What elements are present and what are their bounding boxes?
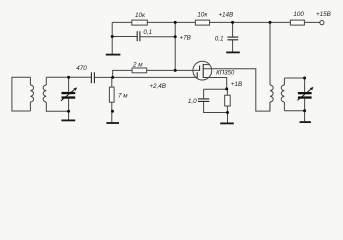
ground bar left tank: [61, 119, 75, 121]
svg-text:2 м: 2 м: [132, 61, 143, 68]
capacitor C3 470 plates: [91, 72, 94, 83]
wire right tank secondary bottom: [284, 110, 304, 112]
wire L4 top lead: [283, 78, 285, 85]
wire left rail drop: [111, 22, 113, 36]
ground bar C2: [226, 51, 240, 53]
wire L4 bottom lead: [283, 102, 285, 111]
inductor L3: [270, 85, 273, 102]
capacitor C2 0.1 plates: [227, 37, 238, 40]
svg-text:100: 100: [293, 11, 304, 18]
wire C4 top stem: [203, 89, 205, 99]
svg-text:0,1: 0,1: [143, 29, 152, 36]
node dot left bias corner: [111, 35, 114, 38]
node dot rail/divider: [174, 21, 177, 24]
node dot rail/right tank: [269, 21, 272, 24]
capacitor C5 arrow: [61, 87, 77, 101]
ground bar R5: [106, 122, 119, 124]
wire L1 bottom lead: [29, 102, 31, 111]
svg-text:+15В: +15В: [316, 11, 331, 18]
node dot R5 bottom: [111, 110, 114, 113]
ground bar left bias: [106, 54, 121, 56]
node dot gate2: [174, 69, 177, 72]
capacitor C1 0.1 plates: [137, 31, 140, 41]
wire R5 bottom lead: [111, 102, 113, 122]
node dot left varicap bottom: [67, 110, 70, 113]
node dot left varicap top: [67, 76, 70, 79]
wire right tank secondary top: [284, 77, 304, 79]
node dot right varicap top: [303, 77, 306, 80]
wire R6 top lead: [226, 89, 228, 95]
wire R4 left lead corner: [113, 70, 132, 77]
wire source lead: [203, 78, 227, 89]
transistor V1 channel: [202, 64, 204, 78]
wire L2 bottom lead: [46, 102, 68, 111]
capacitor C5 variable plates left: [62, 92, 76, 94]
inductor L2: [43, 85, 46, 102]
node dot +7V: [174, 35, 177, 38]
resistor R2 10k body: [195, 20, 209, 25]
inductor L1: [30, 85, 33, 102]
wire ground stem left bias: [111, 37, 113, 54]
resistor R4 2M body: [132, 68, 147, 73]
wire left varicap top stem: [68, 77, 70, 92]
wire drain to right tank: [203, 69, 270, 111]
capacitor C6 variable plates right: [298, 92, 312, 94]
wire gate1 lead left of C3: [46, 76, 91, 78]
transistor V1 gate2 electrode: [199, 66, 201, 71]
capacitor C4 1.0 plates: [198, 99, 209, 102]
wire R5 top lead: [111, 77, 113, 87]
wire right varicap top stem: [304, 78, 306, 92]
wire C1 right lead to +7V node: [140, 36, 175, 38]
wire C4 bottom stem: [204, 102, 228, 113]
wire C2 bottom stem to ground: [232, 40, 234, 52]
wire L2 top lead: [45, 77, 47, 85]
resistor R6 100 body: [225, 95, 231, 106]
ground bar source: [220, 122, 234, 124]
wire ground stem left tank: [68, 111, 70, 119]
wire right varicap bottom stem: [304, 99, 306, 111]
inductor L4: [281, 85, 284, 102]
node dot gate1: [111, 76, 114, 79]
wire gate2 lead: [147, 69, 200, 71]
resistor R1 10k body: [132, 20, 148, 25]
wire source node to C4: [204, 88, 228, 90]
transistor V1 KP350 circle: [193, 61, 212, 80]
svg-text:1,0: 1,0: [188, 98, 197, 105]
wire C2 top stem: [232, 22, 234, 37]
wire gate1 lead right of C3: [94, 76, 197, 78]
wire R6 bottom lead: [226, 106, 228, 113]
svg-text:+1В: +1В: [231, 81, 242, 88]
svg-text:КП350: КП350: [216, 69, 235, 76]
svg-text:+7В: +7В: [180, 34, 191, 41]
svg-text:0,1: 0,1: [215, 35, 224, 42]
wire left loop: [12, 77, 31, 111]
wire left varicap bottom stem: [68, 99, 70, 112]
svg-text:10к: 10к: [135, 12, 146, 19]
terminal +15V: [320, 21, 324, 25]
wire top supply rail: [112, 21, 320, 23]
capacitor C6 arrow: [297, 87, 313, 101]
wire C1 left lead: [112, 36, 137, 38]
wire ground stem right tank: [304, 111, 306, 122]
resistor R3 100 body: [290, 20, 304, 25]
node dot rail/C2: [231, 21, 234, 24]
wire ground stem source: [227, 113, 229, 123]
wire L1 top lead: [29, 77, 31, 85]
svg-text:470: 470: [76, 65, 87, 72]
wire divider vertical x=175: [174, 22, 176, 70]
svg-text:+14В: +14В: [218, 12, 233, 19]
svg-text:10к: 10к: [197, 12, 208, 19]
svg-text:7 м: 7 м: [118, 92, 128, 99]
transistor V1 gate1 electrode: [196, 72, 198, 78]
wire drain stub: [203, 64, 209, 66]
wire L3 bottom lead: [269, 102, 271, 111]
node dot right varicap bottom: [303, 109, 306, 112]
resistor R5 7M body: [109, 87, 114, 102]
node dot source/R6 top: [225, 87, 228, 90]
svg-text:+2,4В: +2,4В: [149, 83, 166, 90]
wire right tank feed from rail: [269, 22, 271, 85]
node dot R6 bottom: [226, 111, 229, 114]
ground bar right tank: [300, 121, 311, 123]
